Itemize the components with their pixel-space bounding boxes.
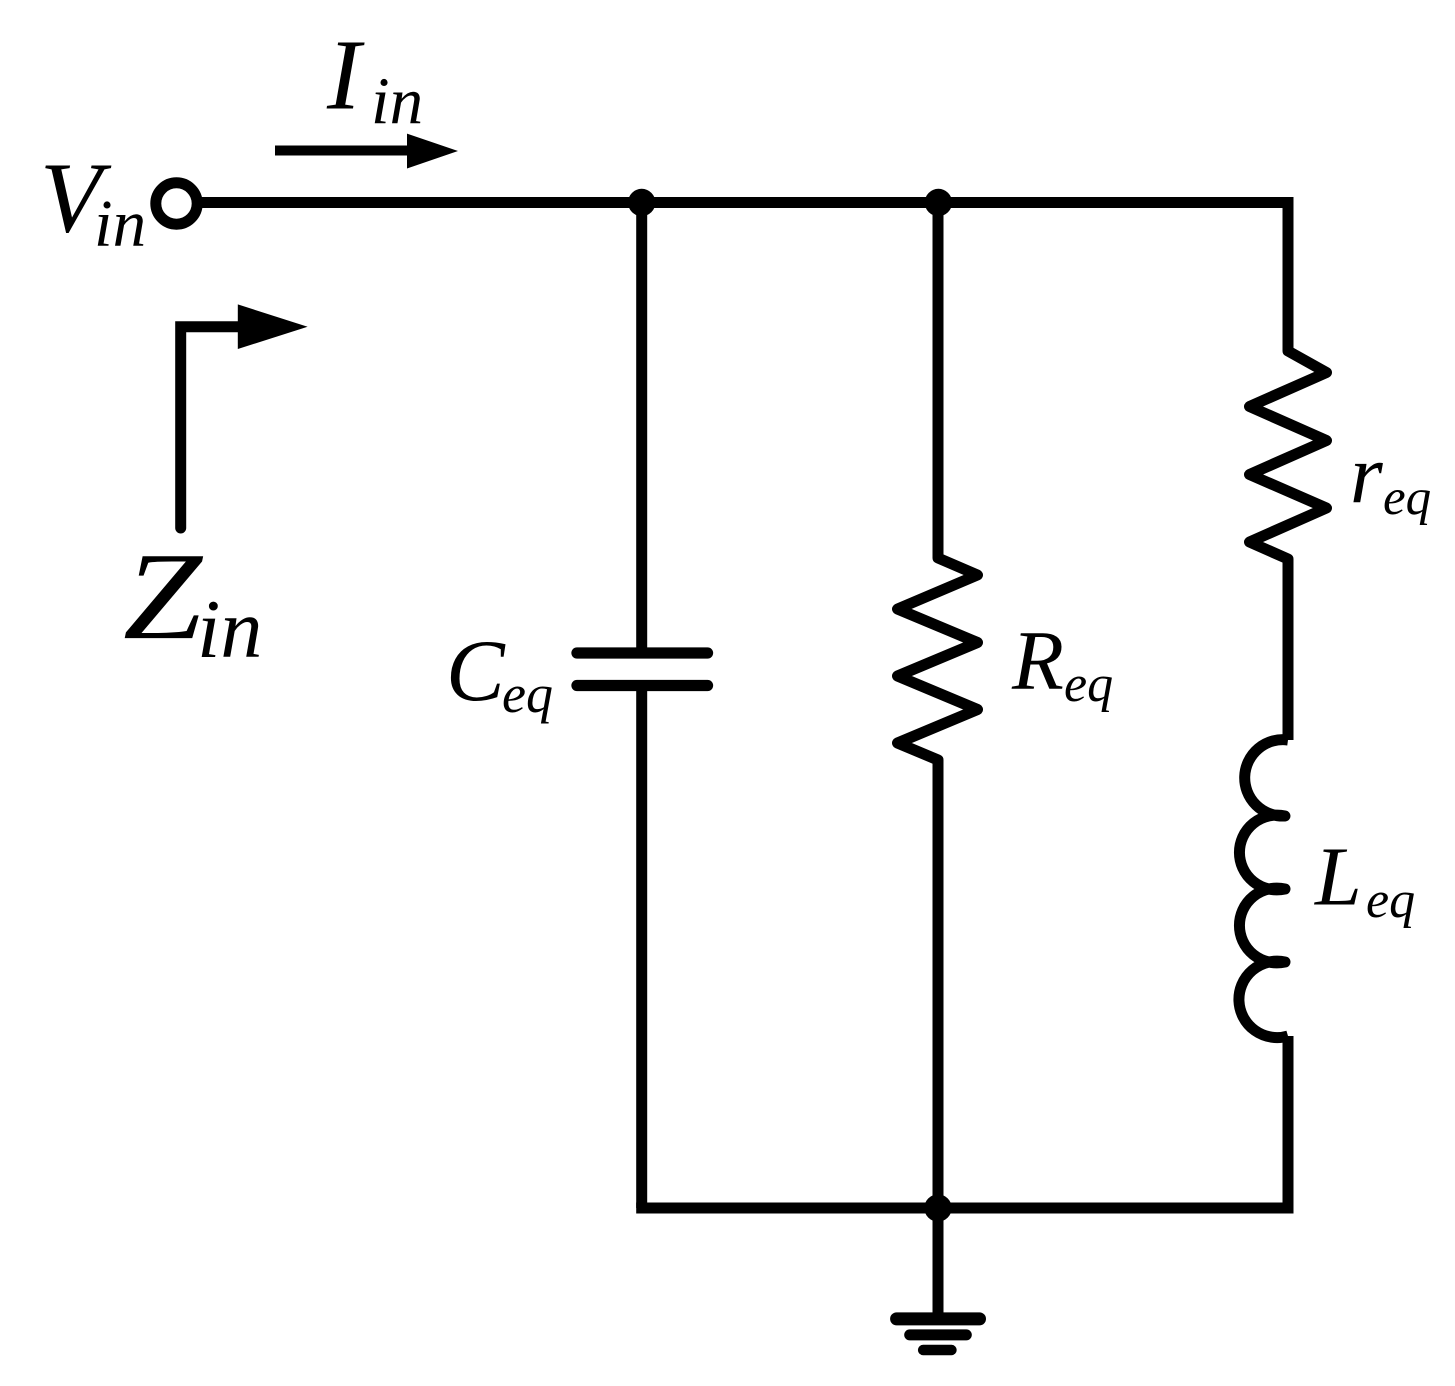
svg-text:R: R	[1011, 614, 1064, 708]
label Ceq	[446, 623, 553, 724]
wire bottom horizontal	[636, 1203, 1293, 1214]
svg-text:in: in	[371, 64, 423, 138]
label Leq	[1314, 831, 1415, 929]
label req	[1350, 429, 1431, 526]
capacitor Ceq	[577, 653, 708, 686]
node junction dot A (top, capacitor branch)	[628, 189, 655, 216]
svg-text:eq: eq	[1064, 656, 1113, 713]
resistor req (zigzag)	[1250, 339, 1327, 571]
wire capacitor branch upper segment	[636, 203, 647, 654]
svg-text:r: r	[1350, 429, 1383, 522]
inductor Leq (4 arcs)	[1239, 740, 1288, 1038]
svg-text:L: L	[1314, 831, 1362, 924]
label Req	[1011, 614, 1113, 713]
ground symbol bar 3	[923, 1345, 951, 1355]
svg-text:in: in	[94, 187, 146, 261]
label Zin	[123, 528, 262, 676]
wire resistor Req branch upper segment	[933, 203, 944, 559]
wire between req and Leq	[1283, 559, 1294, 740]
svg-text:Z: Z	[123, 528, 204, 666]
ground symbol bar 2	[910, 1329, 967, 1340]
input terminal Vin (open circle)	[156, 183, 197, 224]
resistor Req (zigzag)	[898, 546, 978, 772]
svg-text:I: I	[326, 18, 365, 130]
node junction dot C (bottom, ground node)	[924, 1194, 951, 1221]
label Vin	[40, 142, 146, 261]
node junction dot B (top, resistor branch)	[925, 189, 952, 216]
wire inductor to bottom corner	[1283, 1036, 1294, 1208]
arrow Iin (current direction)	[275, 134, 458, 169]
svg-text:in: in	[197, 583, 262, 676]
svg-text:eq: eq	[502, 664, 553, 724]
arrow Zin (impedance looking-in, bent arrow)	[181, 304, 308, 528]
svg-text:eq: eq	[1366, 872, 1415, 929]
svg-text:C: C	[446, 623, 506, 720]
wire capacitor branch lower segment	[636, 686, 647, 1209]
label Iin	[326, 18, 423, 138]
svg-text:eq: eq	[1383, 470, 1431, 526]
ground symbol bar 1	[897, 1312, 980, 1325]
wire resistor Req branch lower segment	[933, 760, 944, 1208]
ground stub wire	[933, 1208, 944, 1313]
wire right branch top corner and down to req	[1283, 203, 1294, 352]
wire top horizontal from Vin terminal to right corner	[197, 197, 1294, 208]
